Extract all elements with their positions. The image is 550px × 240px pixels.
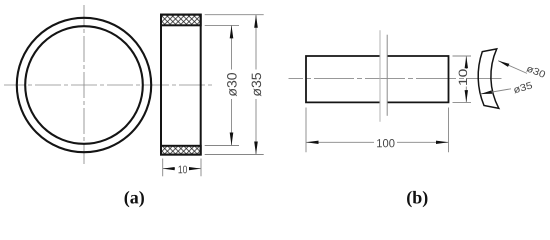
dimension line 10 (a) <box>163 168 175 170</box>
outer circle ø35 <box>17 18 151 152</box>
extension line ø35 top <box>205 14 264 16</box>
shaft outline with break gap <box>306 56 449 102</box>
extension line ø30 bottom <box>205 145 239 147</box>
dimension line ø30 <box>231 25 233 69</box>
svg-text:100: 100 <box>376 136 395 150</box>
extension lines for 10 (a) <box>162 159 164 177</box>
svg-text:ø30: ø30 <box>525 63 548 81</box>
svg-text:ø35: ø35 <box>249 72 264 96</box>
svg-text:(a): (a) <box>124 187 145 207</box>
centerline vertical (front view) <box>83 5 85 164</box>
svg-text:ø35: ø35 <box>512 80 534 96</box>
centerline horizontal (b) <box>289 77 502 79</box>
extension lines for 100 <box>305 108 307 153</box>
extension line ø30 top <box>205 24 239 26</box>
leader line ø35 <box>481 89 512 94</box>
inner circle ø30 <box>25 26 143 144</box>
extension line ø35 bottom <box>205 154 264 156</box>
leader line ø30 <box>498 61 527 74</box>
bottom hatched band <box>161 146 201 155</box>
side view body <box>161 15 201 155</box>
dimension line 10 (b) <box>465 56 467 69</box>
break line left <box>379 30 381 122</box>
centerline horizontal (front view + side view) <box>4 84 212 86</box>
dimension line ø35 <box>255 15 257 70</box>
svg-text:ø30: ø30 <box>225 72 240 96</box>
svg-text:(b): (b) <box>406 187 428 207</box>
top hatched band <box>161 15 201 26</box>
extension lines for 10 (b) <box>453 55 472 57</box>
svg-text:10: 10 <box>178 164 188 176</box>
break line right <box>386 35 388 116</box>
dimension line 100 <box>306 141 374 143</box>
svg-text:10: 10 <box>456 68 470 86</box>
curved segment (ring slice) <box>478 49 499 108</box>
